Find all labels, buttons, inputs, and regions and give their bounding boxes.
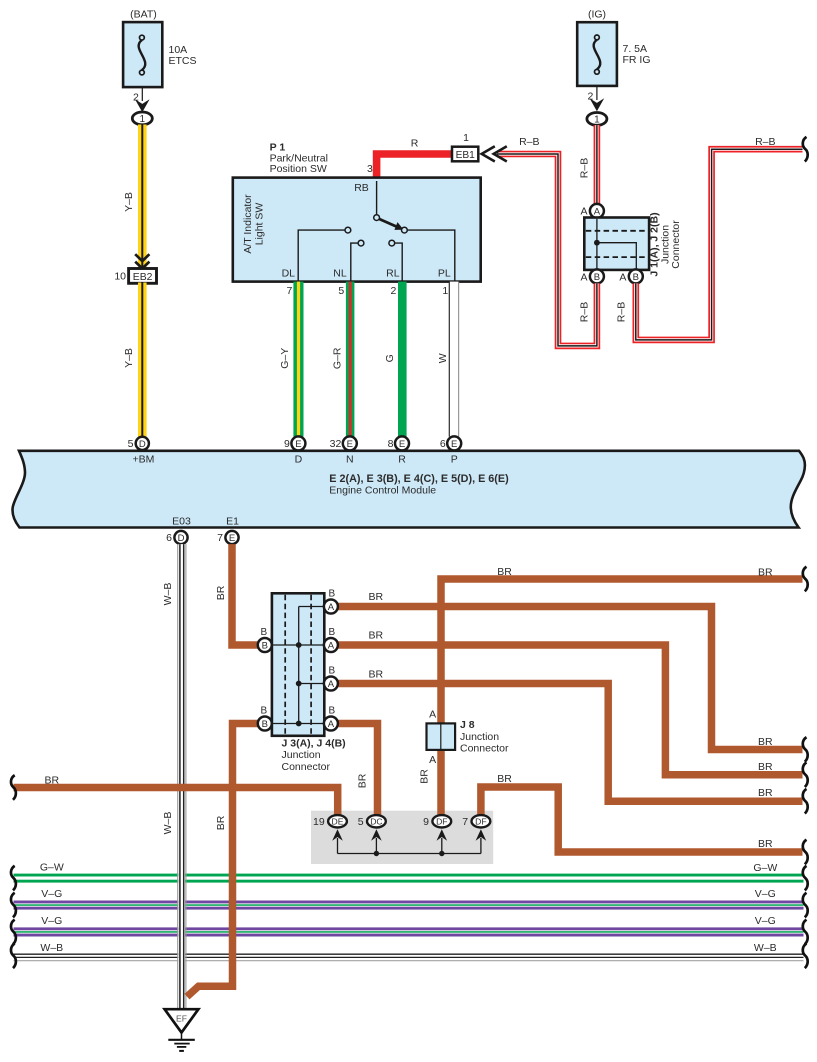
wire R-B fuse to junction A: [578, 125, 597, 204]
wire BR from E1 to J3/J4 pin B: [215, 544, 258, 645]
svg-text:7: 7: [217, 532, 223, 544]
wire BR: J3/J4 A4 down to DC: [338, 724, 378, 816]
svg-text:7: 7: [462, 816, 468, 828]
wire G-R: [331, 282, 354, 437]
wire R-B loop from EB1 to B1: [497, 136, 597, 346]
svg-text:W–B: W–B: [40, 942, 63, 954]
svg-text:E03: E03: [172, 516, 191, 528]
pin A1 circle: [324, 589, 338, 614]
svg-text:W–B: W–B: [162, 812, 174, 835]
wire fuse pin 2: [141, 87, 143, 101]
svg-text:R–B: R–B: [578, 158, 590, 178]
svg-text:BR: BR: [758, 838, 773, 850]
svg-text:R–B: R–B: [578, 302, 590, 322]
wire G: [384, 282, 407, 437]
svg-text:8: 8: [388, 438, 394, 450]
wire W-B vertical from E03 to ground: [162, 544, 186, 1009]
svg-text:BR: BR: [758, 567, 773, 579]
svg-text:J 8: J 8: [460, 719, 475, 731]
svg-text:E: E: [451, 439, 457, 450]
svg-text:R–B: R–B: [615, 302, 627, 322]
svg-text:R: R: [398, 453, 406, 465]
pin A circle into J1/J2: [580, 204, 603, 218]
svg-text:BR: BR: [497, 773, 512, 785]
svg-text:A: A: [328, 679, 335, 690]
wire break at right edge R-B: [803, 137, 808, 162]
svg-text:EB1: EB1: [456, 150, 476, 161]
svg-text:G–W: G–W: [753, 862, 777, 874]
svg-text:3: 3: [367, 163, 373, 175]
svg-text:J 3(A), J 4(B): J 3(A), J 4(B): [282, 738, 346, 750]
svg-text:BR: BR: [758, 736, 773, 748]
RL contact wire: [389, 240, 402, 281]
svg-text:R–B: R–B: [755, 136, 775, 148]
svg-text:6: 6: [166, 532, 172, 544]
svg-text:BR: BR: [369, 630, 384, 642]
svg-text:DE: DE: [332, 817, 344, 827]
connector EB1: [452, 132, 478, 161]
wire BR from left edge to DE: [14, 774, 338, 815]
wire Y-B lower segment: [123, 283, 147, 438]
svg-text:DF: DF: [475, 817, 486, 827]
svg-text:1: 1: [442, 285, 448, 297]
svg-text:D: D: [295, 453, 303, 465]
svg-text:A: A: [429, 754, 436, 766]
svg-text:B: B: [329, 706, 336, 717]
svg-text:BR: BR: [497, 566, 512, 578]
svg-text:B: B: [594, 272, 600, 283]
node 1 oval: [587, 113, 607, 126]
svg-text:A/T Indicator: A/T Indicator: [242, 194, 254, 254]
wire W: [437, 282, 459, 437]
svg-text:Junction: Junction: [460, 731, 499, 743]
svg-text:R: R: [411, 138, 419, 150]
bottom horizontal wire V-G 1: [14, 888, 804, 909]
svg-text:2: 2: [390, 285, 396, 297]
pin 5 D on ECM: [128, 437, 149, 450]
pin A4 circle: [324, 706, 338, 731]
arrow down: [590, 98, 605, 111]
wire BR row2: J3/J4 A2 to right edge: [338, 630, 803, 775]
pin name labels inside P1: [282, 267, 451, 279]
svg-text:NL: NL: [333, 267, 347, 279]
bottom horizontal wire W-B: [14, 942, 804, 961]
wire G-Y: [279, 282, 303, 437]
svg-text:B: B: [633, 272, 639, 283]
pin B circles below J1/J2: [580, 269, 603, 283]
gray shield box: [311, 811, 493, 864]
wire fuse pin 2: [596, 86, 598, 100]
svg-text:A: A: [429, 709, 436, 721]
svg-text:V–G: V–G: [41, 915, 62, 927]
svg-text:DL: DL: [282, 267, 296, 279]
ECM pin circles top: [284, 436, 305, 450]
svg-text:RB: RB: [354, 182, 369, 194]
DL contact wire: [298, 227, 351, 281]
svg-text:7: 7: [286, 285, 292, 297]
shield bus line: [338, 851, 481, 856]
chevron arrows into EB1: [482, 146, 507, 161]
wire breaks left edge: [11, 775, 16, 800]
wire Y-B upper segment: [123, 125, 147, 270]
svg-text:V–G: V–G: [755, 915, 776, 927]
svg-text:E: E: [295, 439, 301, 450]
ECM bottom pin 7 E: [217, 531, 238, 544]
svg-text:Position SW: Position SW: [270, 163, 327, 175]
svg-text:DF: DF: [436, 817, 447, 827]
bottom horizontal wire V-G 2: [14, 915, 804, 936]
svg-text:E: E: [399, 439, 405, 450]
svg-text:10: 10: [114, 271, 126, 283]
svg-text:Connector: Connector: [670, 220, 682, 269]
svg-text:Connector: Connector: [282, 761, 331, 773]
svg-text:B: B: [262, 719, 268, 730]
svg-text:A: A: [328, 602, 335, 613]
svg-text:RL: RL: [386, 267, 400, 279]
junction connector J3(A) J4(B): [265, 593, 346, 773]
svg-text:ETCS: ETCS: [169, 55, 197, 67]
svg-text:E: E: [347, 439, 353, 450]
svg-text:E1: E1: [226, 516, 239, 528]
svg-text:FR IG: FR IG: [623, 54, 651, 66]
svg-text:6: 6: [440, 438, 446, 450]
svg-text:+BM: +BM: [133, 453, 155, 465]
svg-text:B: B: [261, 627, 268, 638]
wire BR row3: J3/J4 A3 to right edge: [338, 668, 803, 801]
svg-text:EF: EF: [176, 1014, 187, 1024]
svg-text:BR: BR: [45, 774, 60, 786]
Engine Control Module band: [13, 451, 805, 528]
svg-text:DC: DC: [370, 817, 382, 827]
wire R-B loop from B2 to right edge: [615, 136, 802, 340]
svg-text:B: B: [262, 640, 268, 651]
wire BR from DF(7) to right edge: [481, 773, 803, 852]
svg-text:W: W: [437, 353, 449, 363]
bottom horizontal wire G-W: [14, 861, 804, 882]
svg-text:G–W: G–W: [40, 861, 64, 873]
svg-text:V–G: V–G: [755, 888, 776, 900]
svg-text:E: E: [229, 533, 235, 544]
connector oval 5 DC: [358, 815, 386, 853]
svg-text:A: A: [328, 640, 335, 651]
svg-text:E 2(A), E 3(B), E 4(C), E 5(D): E 2(A), E 3(B), E 4(C), E 5(D), E 6(E): [329, 473, 509, 485]
wire BR trunk: DF(9) up through J8 to right edge: [419, 566, 803, 815]
svg-text:BR: BR: [215, 815, 227, 830]
svg-text:A: A: [619, 272, 626, 284]
pin B2 circle left: [258, 706, 272, 731]
pin A3 circle: [324, 666, 338, 691]
node 1 oval: [132, 112, 152, 125]
svg-text:G–R: G–R: [331, 347, 343, 369]
svg-text:Light SW: Light SW: [254, 203, 266, 246]
svg-text:EB2: EB2: [133, 272, 153, 283]
svg-text:D: D: [178, 533, 185, 544]
svg-text:A: A: [580, 272, 587, 284]
svg-text:W–B: W–B: [162, 583, 174, 606]
svg-text:W–B: W–B: [754, 942, 777, 954]
svg-text:A: A: [594, 206, 601, 217]
wire BR row1: J3/J4 A1 to right edge: [338, 591, 803, 749]
svg-text:BR: BR: [357, 773, 369, 788]
arrow down: [135, 99, 150, 112]
svg-text:A: A: [580, 206, 587, 218]
svg-text:BR: BR: [369, 668, 384, 680]
svg-text:R–B: R–B: [519, 136, 539, 148]
svg-text:Engine Control Module: Engine Control Module: [329, 484, 436, 496]
svg-text:(IG): (IG): [588, 8, 606, 20]
svg-text:B: B: [329, 666, 336, 677]
svg-text:B: B: [329, 589, 336, 600]
chevron arrows into EB2: [135, 254, 149, 268]
svg-text:Y–B: Y–B: [123, 348, 135, 368]
svg-text:A: A: [328, 719, 335, 730]
switch inside P1: [374, 181, 408, 233]
wire breaks right edge: [803, 567, 808, 592]
PL contact wire: [408, 230, 455, 281]
svg-text:1: 1: [594, 115, 600, 126]
svg-text:Connector: Connector: [460, 743, 509, 755]
svg-text:BR: BR: [758, 787, 773, 799]
connector oval 19 DE: [313, 815, 347, 853]
svg-text:G–Y: G–Y: [279, 348, 291, 369]
svg-text:5: 5: [338, 285, 344, 297]
svg-text:BR: BR: [369, 591, 384, 603]
svg-text:Y–B: Y–B: [123, 192, 135, 212]
svg-text:V–G: V–G: [41, 888, 62, 900]
svg-text:B: B: [329, 627, 336, 638]
svg-text:5: 5: [128, 438, 134, 450]
svg-text:9: 9: [423, 816, 429, 828]
svg-text:19: 19: [313, 816, 325, 828]
connector EB2: [114, 269, 156, 284]
svg-text:9: 9: [284, 438, 290, 450]
svg-text:D: D: [139, 439, 146, 450]
ground EF: [165, 1009, 199, 1051]
junction connector J1(A) J2(B): [584, 212, 682, 276]
svg-text:Junction: Junction: [282, 749, 321, 761]
junction connector J8: [427, 709, 509, 766]
connector oval 9 DF: [423, 815, 451, 853]
pin A2 circle: [324, 627, 338, 652]
connector oval 7 DF: [462, 815, 490, 853]
pin numbers below P1: [286, 285, 448, 297]
NL contact wire: [351, 240, 364, 281]
svg-text:32: 32: [330, 438, 342, 450]
svg-text:5: 5: [358, 816, 364, 828]
svg-text:G: G: [384, 354, 396, 362]
svg-text:1: 1: [463, 132, 469, 144]
svg-text:BR: BR: [419, 769, 431, 784]
fuse 10A ETCS (BAT): [123, 8, 196, 87]
wire BR from J3/J4 pin B2 to ground joint: [187, 724, 258, 997]
pin B1 circle left: [258, 627, 272, 652]
ECM bottom pin 6 D: [166, 531, 187, 544]
svg-text:B: B: [261, 706, 268, 717]
fuse 7.5A FR IG: [577, 8, 650, 86]
svg-text:BR: BR: [758, 761, 773, 773]
svg-text:1: 1: [140, 114, 146, 125]
svg-text:P: P: [451, 453, 458, 465]
svg-text:(BAT): (BAT): [130, 8, 157, 20]
svg-text:PL: PL: [438, 267, 451, 279]
thick R wire from RB pin to EB1: [367, 138, 452, 179]
svg-text:BR: BR: [215, 585, 227, 600]
svg-text:N: N: [346, 453, 354, 465]
P1 Park/Neutral Position SW box: [233, 142, 481, 282]
